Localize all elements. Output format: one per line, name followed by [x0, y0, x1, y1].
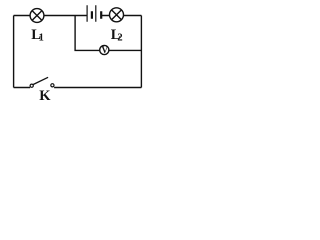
svg-text:K: K [39, 88, 51, 101]
svg-text:2: 2 [117, 33, 122, 44]
svg-text:V: V [102, 45, 109, 55]
svg-text:1: 1 [39, 32, 44, 43]
